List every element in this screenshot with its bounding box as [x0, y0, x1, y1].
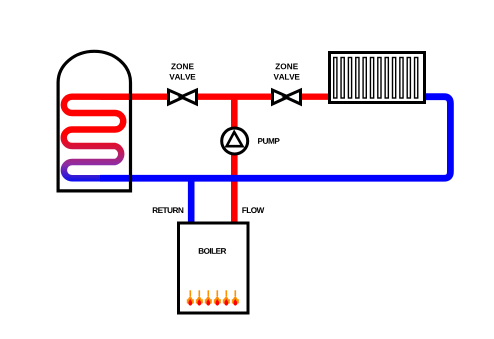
zone valve 1 symbol: [167, 88, 198, 106]
red flow pipe (vertical drop from tee through pump to boiler FLOW): [231, 97, 238, 225]
boiler label: [199, 248, 227, 254]
flame 5: [223, 290, 230, 305]
pump label: [258, 138, 280, 144]
zone valve 2 symbol: [271, 88, 302, 106]
blue return pipe (horizontal main and radiator right loop): [100, 97, 450, 179]
flame 2: [196, 290, 203, 305]
hot water cylinder tank outline: [58, 51, 130, 191]
boiler body: [179, 223, 249, 313]
heat-exchanger coil inside cylinder (red-to-blue gradient): [64, 97, 131, 179]
flame 3: [205, 290, 212, 305]
red flow pipe (horizontal main, cylinder to radiator): [100, 94, 328, 100]
radiator slats: [334, 58, 418, 99]
zone valve 1 label: [171, 63, 193, 69]
radiator body: [330, 53, 425, 103]
flame 4: [214, 290, 221, 305]
flame 6: [232, 290, 239, 305]
zone valve 2 label: [275, 63, 297, 69]
flow label: [242, 207, 264, 213]
return label: [153, 207, 184, 213]
pump symbol: [222, 128, 248, 154]
blue return pipe (vertical drop to boiler RETURN): [188, 178, 195, 225]
flame 1: [187, 290, 194, 305]
